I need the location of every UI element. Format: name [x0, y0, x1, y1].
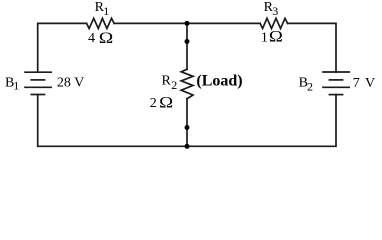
wire middle branch top: [186, 23, 188, 69]
label B2: [299, 76, 313, 94]
svg-text:7 V: 7 V: [353, 76, 375, 91]
resistor R1: [87, 18, 115, 28]
label R1: [95, 0, 110, 18]
svg-text:Ω: Ω: [159, 95, 173, 112]
node dot upper load terminal: [185, 39, 190, 44]
label R3: [264, 0, 279, 18]
label B1: [5, 76, 19, 93]
resistor R2: [181, 69, 193, 99]
svg-text:3: 3: [272, 4, 278, 18]
svg-text:1: 1: [13, 79, 19, 93]
svg-text:1: 1: [103, 4, 109, 18]
node dot bottom junction: [185, 144, 190, 149]
svg-text:R: R: [162, 74, 172, 89]
node dot top junction: [185, 21, 190, 26]
svg-text:Ω: Ω: [99, 30, 114, 47]
wire bottom loop: [38, 95, 336, 147]
svg-text:(Load): (Load): [196, 72, 242, 89]
svg-text:28 V: 28 V: [57, 76, 84, 91]
wire middle branch bottom: [186, 99, 188, 147]
battery B2: [323, 72, 349, 95]
wire top-right segment: [288, 23, 336, 72]
svg-text:4: 4: [88, 31, 95, 46]
svg-text:1: 1: [261, 30, 268, 45]
label 2 ohm: [150, 95, 174, 112]
battery B1: [25, 72, 51, 94]
svg-text:2: 2: [171, 78, 177, 92]
svg-text:2: 2: [150, 96, 157, 111]
svg-text:Ω: Ω: [269, 29, 283, 46]
resistor R3: [260, 18, 288, 28]
wire top-middle segment: [114, 22, 260, 24]
wire top-left segment: [38, 23, 87, 72]
svg-text:2: 2: [307, 79, 313, 93]
node dot lower load terminal: [185, 125, 190, 130]
label 1 ohm: [261, 29, 283, 46]
label 4 ohm: [88, 30, 113, 47]
label R2: [162, 74, 178, 93]
